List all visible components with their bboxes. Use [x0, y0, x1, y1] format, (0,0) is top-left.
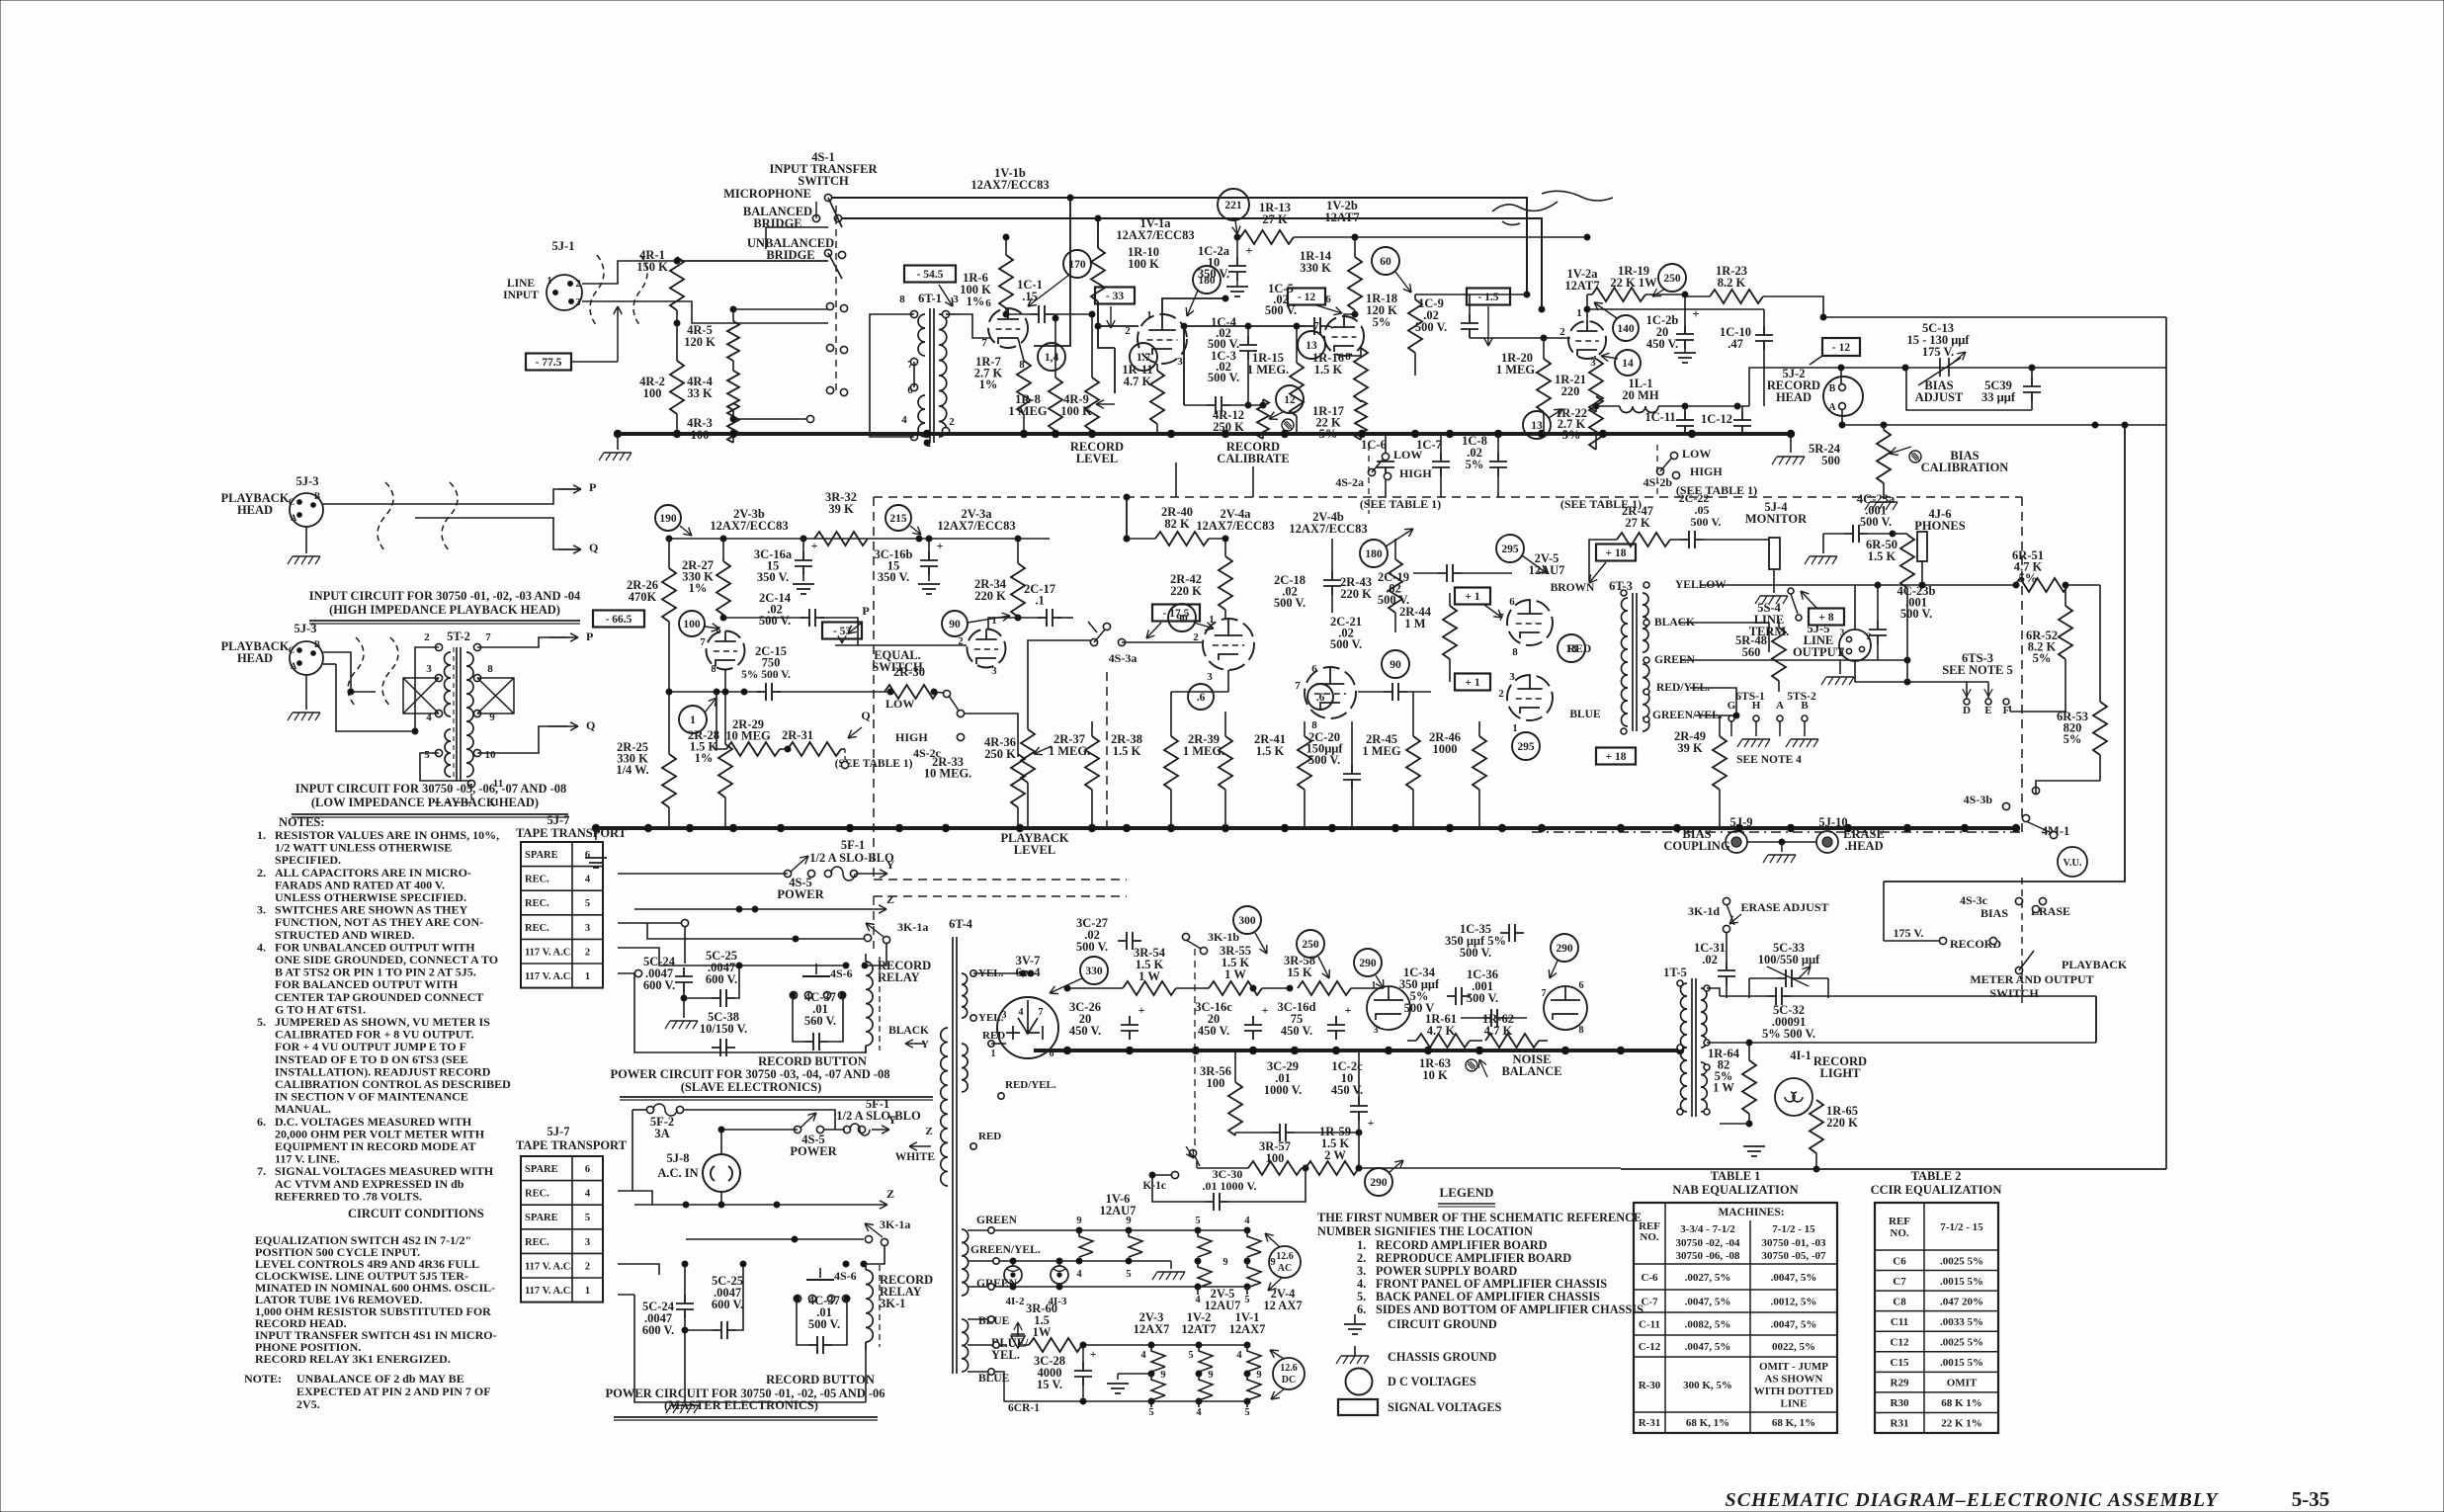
- svg-text:1 MEG: 1 MEG: [1008, 404, 1048, 418]
- svg-text:P: P: [589, 480, 596, 494]
- svg-text:2: 2: [585, 947, 590, 958]
- svg-text:G: G: [1728, 700, 1736, 712]
- svg-text:+: +: [1138, 1003, 1145, 1017]
- rectifier tube 3V-7: [997, 997, 1058, 1058]
- svg-text:SIDES AND BOTTOM OF AMPLIFIER: SIDES AND BOTTOM OF AMPLIFIER CHASSIS: [1376, 1302, 1643, 1316]
- wire master pin3 3K-1a: [618, 1238, 686, 1240]
- dc 330: [1080, 957, 1108, 984]
- svg-text:1: 1: [548, 276, 552, 287]
- svg-text:5T-2: 5T-2: [447, 630, 470, 643]
- svg-text:1: 1: [1146, 309, 1152, 321]
- capacitor 2C-19 cap: [1438, 564, 1462, 582]
- wire playback P: [323, 489, 578, 504]
- ground slave: [665, 1021, 698, 1029]
- svg-text:5%: 5%: [2064, 732, 2082, 746]
- svg-text:Q: Q: [586, 718, 595, 732]
- wire mic drop: [1034, 198, 1070, 346]
- svg-text:LOW: LOW: [1393, 448, 1422, 462]
- svg-text:3: 3: [585, 923, 590, 934]
- wire bias coupling to erase head: [1747, 841, 1816, 843]
- dc 60: [1372, 247, 1399, 275]
- svg-text:3A: 3A: [654, 1127, 669, 1140]
- svg-text:6: 6: [585, 850, 590, 861]
- svg-text:100/550 μμf: 100/550 μμf: [1758, 953, 1820, 966]
- svg-text:220 K: 220 K: [1826, 1116, 1858, 1130]
- svg-text:C12: C12: [1891, 1337, 1909, 1349]
- legend dc voltages: [1346, 1369, 1373, 1395]
- svg-text:UNBALANCE OF 2 db MAY BE: UNBALANCE OF 2 db MAY BE: [296, 1372, 464, 1386]
- svg-text:190: 190: [659, 513, 677, 525]
- signal -33: [1095, 288, 1135, 304]
- svg-text:CALIBRATE: CALIBRATE: [1217, 452, 1289, 465]
- svg-text:10 MEG: 10 MEG: [725, 729, 771, 743]
- svg-text:450 V.: 450 V.: [1646, 337, 1678, 351]
- svg-text:HEAD: HEAD: [237, 503, 273, 517]
- svg-text:1 W: 1 W: [1224, 967, 1246, 981]
- svg-text:SEE NOTE 4: SEE NOTE 4: [1736, 754, 1802, 766]
- svg-text:5J-9: 5J-9: [1730, 815, 1753, 829]
- svg-text:500 V.: 500 V.: [1076, 940, 1108, 954]
- svg-text:C-11: C-11: [1639, 1319, 1660, 1331]
- svg-text:2: 2: [585, 1261, 590, 1272]
- svg-text:5F-1: 5F-1: [841, 838, 865, 852]
- svg-text:12.6: 12.6: [1276, 1251, 1294, 1262]
- svg-text:P: P: [862, 604, 869, 618]
- svg-text:4: 4: [1196, 1407, 1202, 1418]
- svg-text:MACHINES:: MACHINES:: [1718, 1207, 1784, 1218]
- svg-text:- 66.5: - 66.5: [606, 614, 632, 626]
- svg-text:117 V. A.C.: 117 V. A.C.: [525, 947, 573, 958]
- svg-text:RED: RED: [982, 1030, 1005, 1042]
- svg-text:C-6: C-6: [1641, 1272, 1658, 1284]
- svg-text:6: 6: [985, 297, 991, 309]
- svg-text:REC.: REC.: [525, 923, 549, 934]
- svg-text:295: 295: [1517, 741, 1535, 753]
- wire black: [1680, 623, 1769, 652]
- svg-text:560 V.: 560 V.: [804, 1014, 836, 1028]
- svg-text:4I-1: 4I-1: [1790, 1049, 1812, 1062]
- svg-text:TABLE 2: TABLE 2: [1911, 1169, 1962, 1183]
- svg-text:OMIT: OMIT: [1947, 1378, 1978, 1389]
- svg-text:1000 V.: 1000 V.: [1264, 1083, 1302, 1097]
- svg-text:AC: AC: [1278, 1263, 1292, 1274]
- svg-text:BRIDGE: BRIDGE: [766, 248, 814, 262]
- svg-text:215: 215: [889, 513, 907, 525]
- svg-text:2: 2: [949, 416, 955, 428]
- wire coupling row 1V-1a plate: [1184, 325, 1306, 327]
- svg-text:9: 9: [1256, 1370, 1261, 1381]
- svg-text:1: 1: [585, 1286, 590, 1297]
- svg-text:3K-1a: 3K-1a: [880, 1218, 910, 1231]
- svg-text:4S-3c: 4S-3c: [1960, 893, 1988, 907]
- svg-text:HEAD: HEAD: [1776, 390, 1812, 404]
- svg-text:3.: 3.: [257, 903, 266, 917]
- svg-text:4: 4: [901, 414, 907, 426]
- svg-text:90: 90: [1390, 659, 1401, 671]
- heater ground row1: [1170, 1261, 1172, 1269]
- svg-text:33 K: 33 K: [687, 386, 713, 400]
- svg-text:2: 2: [424, 631, 430, 643]
- wire line input shield: [582, 261, 828, 284]
- svg-text:METER AND OUTPUT: METER AND OUTPUT: [1970, 972, 2093, 986]
- svg-text:350 V.: 350 V.: [878, 570, 909, 584]
- svg-text:RED/YEL.: RED/YEL.: [1005, 1079, 1056, 1091]
- svg-text:.6: .6: [1316, 692, 1325, 704]
- svg-text:12: 12: [1284, 394, 1296, 406]
- svg-text:295: 295: [1501, 544, 1519, 555]
- svg-text:600 V.: 600 V.: [642, 1323, 674, 1337]
- svg-text:REFERRED TO .78 VOLTS.: REFERRED TO .78 VOLTS.: [275, 1189, 422, 1203]
- svg-text:TABLE 1: TABLE 1: [1711, 1169, 1761, 1183]
- svg-text:1T-5: 1T-5: [1663, 966, 1687, 979]
- svg-text:68 K, 1%: 68 K, 1%: [1772, 1417, 1815, 1429]
- svg-text:(LOW IMPEDANCE PLAYBACK HEAD): (LOW IMPEDANCE PLAYBACK HEAD): [311, 796, 539, 809]
- svg-text:RED: RED: [978, 1131, 1001, 1142]
- svg-text:HIGH: HIGH: [895, 730, 928, 744]
- dc 12.6 AC: [1269, 1246, 1301, 1278]
- svg-text:750: 750: [762, 656, 781, 670]
- svg-text:12AU7: 12AU7: [1529, 563, 1565, 577]
- svg-text:4: 4: [1244, 1216, 1250, 1226]
- svg-text:600 V.: 600 V.: [643, 978, 675, 992]
- svg-text:.0033 5%: .0033 5%: [1940, 1316, 1983, 1328]
- svg-text:OUTPUT: OUTPUT: [1793, 645, 1845, 659]
- svg-text:- 12: - 12: [1298, 292, 1315, 303]
- dc 295 a: [1496, 535, 1524, 562]
- svg-text:175 V.: 175 V.: [1922, 345, 1954, 359]
- svg-text:12AU7: 12AU7: [1100, 1204, 1137, 1218]
- svg-text:C8: C8: [1893, 1296, 1906, 1307]
- svg-text:6TS-1: 6TS-1: [1735, 691, 1765, 703]
- meter dashed box: [2021, 878, 2023, 1003]
- dc 12.6 DC: [1273, 1358, 1305, 1389]
- svg-text:7: 7: [485, 631, 491, 643]
- svg-text:(MASTER ELECTRONICS): (MASTER ELECTRONICS): [664, 1398, 818, 1412]
- wire equal switch out: [964, 714, 1018, 757]
- svg-text:6T-4: 6T-4: [949, 917, 973, 931]
- svg-text:15 K: 15 K: [1287, 966, 1312, 979]
- svg-text:33 μμf: 33 μμf: [1981, 390, 2016, 404]
- wire 2V-4a plate: [1227, 613, 1229, 619]
- dc 12: [1276, 385, 1304, 413]
- svg-text:5: 5: [1195, 1216, 1200, 1226]
- svg-text:1: 1: [991, 1049, 996, 1059]
- svg-text:300 K, 5%: 300 K, 5%: [1683, 1380, 1732, 1391]
- dc 180 b: [1360, 540, 1388, 567]
- svg-text:6.: 6.: [1357, 1302, 1366, 1316]
- svg-text:9: 9: [1076, 1216, 1081, 1226]
- svg-text:1 MEG.: 1 MEG.: [1496, 363, 1538, 377]
- svg-text:500 V.: 500 V.: [1274, 596, 1306, 610]
- svg-text:8: 8: [899, 294, 905, 305]
- svg-text:250: 250: [1663, 273, 1681, 285]
- svg-text:5J-1: 5J-1: [552, 239, 575, 253]
- svg-text:LOW: LOW: [1682, 447, 1711, 461]
- svg-text:9: 9: [1160, 1370, 1165, 1381]
- heater glyphs row1: [1079, 1230, 1093, 1257]
- svg-text:+ 18: + 18: [1606, 751, 1627, 763]
- svg-text:10 MEG.: 10 MEG.: [924, 767, 972, 781]
- svg-text:117 V. A.C.: 117 V. A.C.: [525, 1286, 573, 1297]
- svg-text:2: 2: [1498, 688, 1504, 700]
- dc 290 c: [1365, 1168, 1392, 1196]
- wire slave pin4: [618, 873, 788, 875]
- ground bus playback: [596, 826, 2016, 830]
- svg-text:BIAS: BIAS: [1980, 906, 2008, 920]
- wire green/yel: [1695, 714, 1736, 716]
- svg-text:Q: Q: [589, 541, 598, 554]
- svg-text:K-1c: K-1c: [1142, 1180, 1166, 1192]
- svg-text:117 V. A.C.: 117 V. A.C.: [525, 971, 573, 982]
- svg-text:4.: 4.: [257, 940, 266, 954]
- svg-text:+ 18: + 18: [1606, 547, 1627, 559]
- svg-text:60: 60: [1380, 256, 1391, 268]
- svg-text:6T-1: 6T-1: [918, 292, 942, 305]
- svg-text:7.: 7.: [257, 1164, 266, 1178]
- svg-text:C11: C11: [1891, 1316, 1908, 1328]
- svg-text:REC.: REC.: [525, 1237, 549, 1248]
- svg-text:180: 180: [1365, 548, 1383, 560]
- dc 290 b: [1551, 934, 1578, 962]
- wire B+ row: [1314, 236, 1587, 238]
- svg-text:REC.: REC.: [525, 898, 549, 909]
- svg-text:- 1.5: - 1.5: [1477, 292, 1498, 303]
- svg-text:V.U.: V.U.: [2063, 858, 2081, 869]
- legend circuit ground: [1344, 1324, 1366, 1334]
- svg-text:10/150 V.: 10/150 V.: [700, 1022, 747, 1036]
- power bus 3: [1034, 1049, 1680, 1052]
- svg-text:1: 1: [1840, 647, 1845, 657]
- wire 5T-2 secondary Q: [477, 726, 568, 753]
- svg-text:BRIDGE: BRIDGE: [753, 216, 801, 230]
- svg-text:2.: 2.: [257, 866, 266, 880]
- wire slave Z: [634, 908, 886, 910]
- svg-text:290: 290: [1370, 1177, 1388, 1189]
- svg-text:3: 3: [426, 663, 432, 675]
- svg-text:CHASSIS GROUND: CHASSIS GROUND: [1388, 1350, 1496, 1364]
- svg-text:7: 7: [1039, 1007, 1044, 1018]
- svg-text:THE FIRST NUMBER OF THE SCHEMA: THE FIRST NUMBER OF THE SCHEMATIC REFERE…: [1317, 1211, 1642, 1224]
- wire 4S-1 dashed gang: [835, 206, 837, 395]
- dc 215: [885, 505, 911, 531]
- wire plate 1V-1a: [1162, 298, 1225, 314]
- svg-text:5: 5: [1244, 1407, 1249, 1418]
- svg-text:RECORD BUTTON: RECORD BUTTON: [758, 1054, 867, 1068]
- svg-text:C-12: C-12: [1639, 1341, 1661, 1353]
- dashed 4S-2c link: [841, 748, 845, 750]
- svg-text:7-1/2 - 15: 7-1/2 - 15: [1940, 1221, 1983, 1233]
- svg-text:2: 2: [958, 636, 963, 647]
- svg-text:A: A: [291, 661, 297, 671]
- svg-text:3: 3: [576, 297, 581, 308]
- svg-text:D: D: [1963, 705, 1971, 716]
- svg-text:COUPLING: COUPLING: [1663, 839, 1730, 853]
- svg-text:1%: 1%: [695, 751, 714, 765]
- wire green: [1680, 659, 1907, 661]
- svg-text:14: 14: [1622, 358, 1634, 370]
- svg-text:2: 2: [1867, 632, 1872, 642]
- dashed Z boundary slave: [874, 895, 1127, 897]
- wire 1V-2a second row: [1588, 308, 1764, 310]
- svg-text:5: 5: [1126, 1269, 1131, 1280]
- svg-text:CIRCUIT CONDITIONS: CIRCUIT CONDITIONS: [348, 1207, 484, 1220]
- svg-text:C: C: [289, 497, 295, 507]
- svg-text:4S-2a: 4S-2a: [1335, 475, 1364, 489]
- svg-text:4S-3b: 4S-3b: [1964, 793, 1993, 806]
- wire slave pin2 row: [618, 948, 846, 966]
- svg-text:12AX7: 12AX7: [1134, 1322, 1170, 1336]
- svg-text:+: +: [1245, 243, 1252, 258]
- tube 2V-3b: [707, 631, 745, 670]
- svg-text:+: +: [937, 539, 944, 552]
- svg-text:450 V.: 450 V.: [1281, 1024, 1312, 1038]
- svg-text:9: 9: [1208, 1370, 1213, 1381]
- svg-text:NOTES:: NOTES:: [279, 815, 325, 829]
- svg-text:6: 6: [1325, 294, 1331, 305]
- svg-text:+: +: [1345, 1003, 1352, 1017]
- svg-text:8: 8: [487, 663, 493, 675]
- svg-text:1%: 1%: [979, 378, 998, 391]
- svg-text:C-7: C-7: [1641, 1297, 1658, 1308]
- switch 4S-3 meter contacts: [2022, 814, 2029, 821]
- svg-text:68 K 1%: 68 K 1%: [1941, 1397, 1982, 1409]
- wire master pin2 row: [618, 1264, 659, 1275]
- svg-text:220 K: 220 K: [1340, 587, 1372, 601]
- switch 4S-1 lower contacts: [806, 415, 813, 422]
- svg-text:4.7 K: 4.7 K: [1124, 375, 1152, 388]
- svg-text:Q: Q: [861, 709, 870, 722]
- svg-text:9: 9: [1222, 1257, 1227, 1268]
- svg-text:150 K: 150 K: [636, 260, 668, 274]
- wire 1V-2b plate row: [1449, 227, 1451, 237]
- dc 250: [1658, 264, 1686, 292]
- wire input network: [677, 260, 828, 262]
- svg-text:ERASE ADJUST: ERASE ADJUST: [1740, 900, 1828, 914]
- svg-text:22 K 1W: 22 K 1W: [1610, 276, 1657, 290]
- svg-text:RED: RED: [1567, 643, 1591, 655]
- svg-text:MONITOR: MONITOR: [1745, 512, 1808, 526]
- svg-text:INPUT CIRCUIT FOR 30750 -05, -: INPUT CIRCUIT FOR 30750 -05, -06, -07 AN…: [295, 782, 567, 796]
- svg-text:ADJUST: ADJUST: [1915, 390, 1964, 404]
- dashed boundary record eq: [874, 496, 2022, 498]
- svg-text:5J-7: 5J-7: [548, 1125, 570, 1138]
- svg-text:500 V.: 500 V.: [808, 1317, 840, 1331]
- svg-text:CCIR EQUALIZATION: CCIR EQUALIZATION: [1871, 1183, 2002, 1197]
- svg-text:(HIGH IMPEDANCE PLAYBACK HEAD): (HIGH IMPEDANCE PLAYBACK HEAD): [329, 603, 560, 617]
- wire to 1V-2a grid: [1470, 337, 1570, 339]
- svg-text:4: 4: [1195, 1295, 1201, 1305]
- pilot lamps 4I-2 4I-3: [1004, 1266, 1022, 1284]
- svg-text:5: 5: [1148, 1407, 1153, 1418]
- chassis ground 4C-23b: [1809, 632, 1838, 652]
- wire 6R top feed: [1893, 533, 1907, 535]
- svg-text:SWITCH: SWITCH: [1989, 986, 2039, 1000]
- svg-text:- 17.5: - 17.5: [1163, 608, 1190, 620]
- chassis ground bus1: [617, 434, 619, 450]
- svg-text:500 V.: 500 V.: [1415, 320, 1447, 334]
- svg-text:1,4: 1,4: [1045, 352, 1059, 364]
- svg-text:350 V.: 350 V.: [1198, 267, 1229, 281]
- heater glyphs row2: [1151, 1345, 1165, 1372]
- svg-text:1%: 1%: [967, 294, 985, 308]
- svg-text:B: B: [1801, 700, 1809, 712]
- wire heater row1 bottom: [994, 1286, 1247, 1288]
- wire record light bottom: [1620, 1124, 1622, 1169]
- svg-text:1: 1: [1512, 722, 1518, 734]
- signal +1 b: [1455, 674, 1490, 691]
- wire record calibrate drops: [1175, 462, 1177, 497]
- svg-text:12AT7: 12AT7: [1324, 210, 1359, 224]
- svg-text:500 V.: 500 V.: [759, 614, 791, 628]
- wire 2V-3a grid: [835, 644, 967, 646]
- svg-text:- 77.5: - 77.5: [536, 357, 562, 369]
- svg-text:.0047, 5%: .0047, 5%: [1685, 1297, 1731, 1308]
- svg-text:500 V.: 500 V.: [1691, 515, 1722, 529]
- svg-text:HIGH: HIGH: [1690, 464, 1723, 478]
- dc 90 b: [1168, 604, 1196, 631]
- svg-text:12AX7/ECC83: 12AX7/ECC83: [1289, 522, 1367, 536]
- svg-text:3-3/4 - 7-1/2: 3-3/4 - 7-1/2: [1680, 1223, 1735, 1235]
- svg-text:E: E: [1984, 705, 1991, 716]
- dc .6 a: [1188, 684, 1214, 710]
- svg-text:POWER SUPPLY BOARD: POWER SUPPLY BOARD: [1376, 1264, 1517, 1278]
- svg-text:27 K: 27 K: [1625, 516, 1650, 530]
- wire heater row1 mid: [999, 1260, 1171, 1262]
- svg-text:1.7: 1.7: [1137, 352, 1151, 364]
- svg-text:RECORD AMPLIFIER BOARD: RECORD AMPLIFIER BOARD: [1376, 1238, 1548, 1252]
- wire playback Q: [415, 518, 578, 549]
- svg-text:.0027, 5%: .0027, 5%: [1685, 1272, 1731, 1284]
- svg-text:BROWN: BROWN: [1551, 582, 1595, 594]
- wire 6T-3 leads: [1621, 590, 1627, 596]
- svg-text:LINE: LINE: [1781, 1398, 1808, 1410]
- wire grid 1V-2b: [1297, 325, 1306, 327]
- svg-text:8: 8: [1579, 1025, 1584, 1036]
- dc 13 b: [1523, 411, 1551, 439]
- svg-text:7: 7: [1295, 680, 1301, 692]
- signal -1.5: [1467, 289, 1510, 305]
- svg-text:LEGEND: LEGEND: [1440, 1185, 1494, 1200]
- svg-text:4: 4: [1236, 1350, 1242, 1361]
- heater ground row2: [1117, 1374, 1119, 1380]
- signal +18 top: [1596, 545, 1636, 561]
- wires meter region: [1884, 940, 1940, 942]
- tube 2V-3a: [968, 630, 1006, 668]
- svg-text:Z: Z: [925, 1126, 932, 1137]
- svg-text:8: 8: [1345, 351, 1351, 363]
- svg-text:500: 500: [1821, 454, 1840, 467]
- svg-text:D C VOLTAGES: D C VOLTAGES: [1388, 1375, 1476, 1388]
- svg-text:C6: C6: [1893, 1255, 1906, 1267]
- svg-text:.0047, 5%: .0047, 5%: [1771, 1319, 1817, 1331]
- svg-text:5.: 5.: [257, 1015, 266, 1029]
- svg-text:22 K 1%: 22 K 1%: [1941, 1418, 1982, 1430]
- svg-text:2V5.: 2V5.: [296, 1397, 320, 1411]
- svg-text:.0015 5%: .0015 5%: [1940, 1357, 1983, 1369]
- svg-text:.047 20%: .047 20%: [1940, 1296, 1983, 1307]
- svg-text:100: 100: [1207, 1076, 1225, 1090]
- capacitor 5C39 33uuf: [2023, 378, 2041, 401]
- svg-text:5%: 5%: [1373, 315, 1391, 329]
- svg-text:100 K: 100 K: [1128, 257, 1159, 271]
- svg-text:RECORD BUTTON: RECORD BUTTON: [766, 1373, 875, 1386]
- wire 2V-3b cathode row: [669, 691, 761, 693]
- svg-text:3: 3: [1840, 629, 1845, 638]
- svg-text:2R-31: 2R-31: [782, 728, 813, 742]
- svg-text:+: +: [1262, 1003, 1269, 1017]
- svg-text:C7: C7: [1893, 1276, 1906, 1288]
- svg-text:REF: REF: [1889, 1216, 1910, 1227]
